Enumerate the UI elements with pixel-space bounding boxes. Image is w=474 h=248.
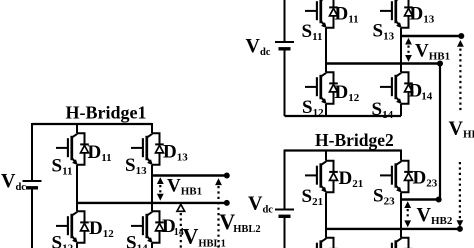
- wire left dc rail upper: [31, 123, 33, 180]
- wire right leg emitter bottom: [151, 243, 153, 248]
- arrow VHBL2 dashed shaft: [217, 186, 219, 248]
- wire top-right leg mid: [400, 28, 402, 72]
- transistor S11 (top bridge): [305, 0, 338, 28]
- wire output line2 (left bridge): [77, 202, 224, 204]
- node terminal dot line1 (HB2): [436, 197, 442, 203]
- wire output line1 (HB2): [401, 198, 436, 200]
- wire output line2 (top bridge): [326, 62, 438, 64]
- arrow VHB1 dashed shaft (top): [407, 46, 409, 55]
- arrow VHB2 dashed shaft: [407, 209, 409, 219]
- wire top-right leg emitter bottom: [400, 104, 402, 116]
- transistor S11 (left bridge): [56, 133, 89, 165]
- wire left leg mid: [76, 165, 78, 211]
- transistor S12 (left bridge): [56, 211, 89, 243]
- wire output line1 (top bridge): [401, 35, 459, 37]
- arrow VHB dashed shaft lower: [459, 162, 461, 220]
- wire HB2-left leg collector drop: [325, 150, 327, 161]
- wire left leg emitter bottom: [76, 243, 78, 248]
- transistor S22 (cropped): [305, 238, 338, 248]
- wire top rail HB1-left: [32, 123, 152, 125]
- transistor S23: [380, 161, 413, 193]
- arrow VHBL1 dashed shaft: [180, 213, 182, 248]
- wire left dc rail lower: [31, 190, 33, 248]
- wire top-left leg mid: [325, 28, 327, 72]
- arrow VHBL2 head: [215, 178, 222, 185]
- transistor S12 (top bridge): [305, 72, 338, 104]
- wire HB2-left leg mid: [325, 193, 327, 238]
- arrow VHB down head: [457, 220, 464, 227]
- transistor S13 (left bridge): [131, 133, 164, 165]
- transistor S14 (left bridge): [131, 211, 164, 243]
- arrow VHB dashed shaft upper: [459, 49, 461, 113]
- wire HB2-right leg collector drop: [400, 150, 402, 161]
- arrow VHB up head: [457, 40, 464, 47]
- node terminal dot line1 (top): [458, 33, 464, 39]
- node terminal dot line1 (left): [224, 173, 230, 179]
- wire right-top bottom rail: [285, 115, 402, 117]
- arrow VHB1 down head (top): [405, 55, 412, 62]
- wire right leg mid: [151, 165, 153, 211]
- arrow VHB2 up head: [404, 201, 411, 208]
- wire right leg collector drop: [151, 123, 153, 133]
- svg-text:H-Bridge2: H-Bridge2: [315, 130, 394, 150]
- wire cascade link: [439, 64, 441, 200]
- wire right-top dc rail upper: [284, 0, 286, 41]
- arrow VHB1 up head (top): [405, 38, 412, 45]
- arrow VHB2 down head: [404, 220, 411, 227]
- arrow VHB1 dashed shaft (left): [159, 185, 161, 194]
- wire HB2 dc rail upper: [284, 150, 286, 210]
- transistor S14 (top bridge): [380, 72, 413, 104]
- wire top rail HB2: [285, 149, 402, 151]
- wire left leg collector drop: [76, 123, 78, 133]
- wire output line1 (left bridge): [152, 174, 224, 176]
- transistor S13 (top bridge): [380, 0, 413, 28]
- wire right-top dc rail lower: [284, 51, 286, 117]
- svg-text:H-Bridge1: H-Bridge1: [66, 103, 147, 123]
- wire HB2 dc rail lower: [284, 218, 286, 248]
- node terminal dot line2 (left): [224, 200, 230, 206]
- arrow VHB1 down head (left): [157, 194, 164, 201]
- node terminal dot line2 (top): [437, 61, 443, 67]
- node terminal dot line2 (HB2): [457, 226, 463, 232]
- wire output line2 (HB2): [326, 228, 457, 230]
- wire HB2-right leg mid: [400, 193, 402, 238]
- battery Vdc (right top): [275, 42, 294, 49]
- arrow VHB1 up head (left): [157, 177, 164, 184]
- wire top-left leg emitter bottom: [325, 104, 327, 116]
- wire HB2-right leg lower drop: [400, 229, 402, 238]
- wire HB2-left leg lower drop: [325, 229, 327, 238]
- transistor S24 (cropped): [380, 238, 413, 248]
- transistor S21: [305, 161, 338, 193]
- arrow VHBL1 head: [177, 204, 185, 211]
- battery Vdc (HB2): [275, 210, 294, 217]
- battery Vdc (left): [23, 181, 42, 188]
